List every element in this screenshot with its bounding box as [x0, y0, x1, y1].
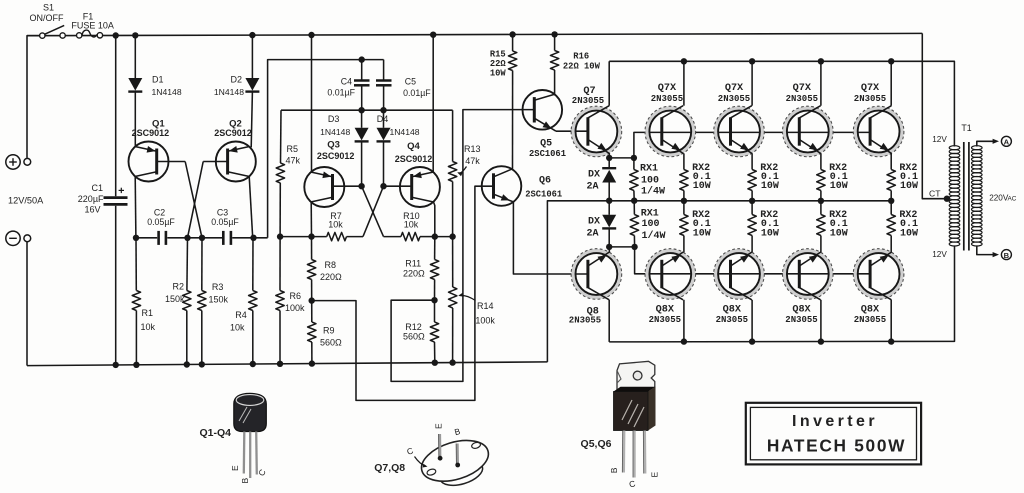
wire D1 to Q1 emitter: [134, 92, 136, 148]
wire Q1 collector down: [134, 176, 137, 238]
battery negative terminal circle: [6, 231, 20, 245]
node R4 ground junction: [250, 361, 256, 367]
svg-text:10W: 10W: [830, 229, 848, 240]
node Q8X #3 collector rail junction: [818, 338, 824, 344]
svg-text:100k: 100k: [475, 316, 495, 326]
wire D2 to Q2 emitter: [251, 92, 252, 148]
node R14 ground junction: [449, 359, 455, 365]
wire Q8X #3 collector: [820, 300, 822, 342]
wire battery positive to switch: [27, 36, 40, 158]
svg-text:Q7,Q8: Q7,Q8: [374, 462, 405, 474]
node Q4 base junction: [380, 183, 386, 189]
node R11/R12 junction: [431, 297, 437, 303]
transistor Q7X #4 2N3055: [856, 108, 902, 154]
svg-text:1N4148: 1N4148: [320, 127, 350, 137]
node C4 top junction: [359, 56, 365, 62]
transistor Q7X #2 2N3055: [716, 108, 762, 154]
svg-text:150k: 150k: [165, 294, 185, 304]
svg-text:C3: C3: [217, 208, 228, 218]
battery positive open terminal: [24, 158, 31, 165]
node Q7 emitter junction: [606, 155, 612, 161]
svg-text:2SC1061: 2SC1061: [525, 189, 562, 199]
svg-text:C2: C2: [154, 208, 165, 218]
svg-text:2SC9012: 2SC9012: [317, 151, 355, 161]
svg-text:220µF: 220µF: [78, 194, 104, 204]
svg-text:R11: R11: [405, 259, 421, 269]
wire slant junction to R10: [384, 236, 401, 238]
svg-text:C5: C5: [405, 77, 416, 87]
wire R7 to slant junction: [347, 236, 364, 238]
node Q3 emitter rail junction: [308, 32, 314, 38]
svg-text:2A: 2A: [586, 229, 598, 240]
svg-text:C1: C1: [91, 183, 103, 193]
wire ground bottom rail: [27, 362, 548, 366]
node R8/R9 junction: [309, 297, 315, 303]
node R3 top junction: [199, 235, 205, 241]
node Q1 collector / C2 left junction: [133, 235, 139, 241]
diode DX2: [602, 215, 616, 228]
transistor Q8X #1 2N3055: [647, 251, 693, 297]
wire C1 to ground rail: [115, 206, 117, 365]
svg-text:10k: 10k: [328, 220, 343, 230]
svg-text:2N3055: 2N3055: [572, 96, 604, 106]
svg-text:Q7X: Q7X: [658, 83, 677, 94]
resistor RX2 lower #3: [820, 201, 822, 215]
svg-text:R16: R16: [573, 51, 589, 61]
wire Q1 collector to R1: [135, 238, 137, 291]
svg-text:D2: D2: [230, 75, 242, 85]
svg-text:R8: R8: [325, 260, 337, 270]
svg-text:10W: 10W: [830, 181, 848, 192]
resistor R10: [401, 232, 420, 240]
wire R11/R12 junction to Q5 base: [391, 110, 534, 382]
resistor RX2 upper #3: [817, 170, 825, 191]
svg-text:Q4: Q4: [407, 141, 420, 152]
svg-text:R2: R2: [172, 282, 184, 292]
wire Q4 collector down: [434, 202, 435, 237]
wire Q7X #2 emitter to RX2: [751, 153, 753, 169]
node DX middle rail junction: [606, 198, 612, 204]
node R15 top rail junction: [509, 31, 515, 37]
wire fuse output to C1: [115, 36, 117, 197]
svg-text:10k: 10k: [230, 322, 245, 332]
svg-text:E: E: [230, 465, 240, 471]
wire oscillator bias rail: [281, 109, 453, 111]
svg-text:FUSE 10A: FUSE 10A: [71, 21, 114, 31]
resistor RX2 lower #2: [751, 201, 753, 215]
node CT junction dot: [944, 196, 950, 202]
transistor Q3 2SC9012: [304, 167, 344, 207]
svg-text:10W: 10W: [761, 229, 779, 240]
svg-text:R15: R15: [490, 50, 506, 60]
node RX2 #3 middle rail junction: [818, 198, 824, 204]
svg-text:2SC9012: 2SC9012: [214, 128, 252, 138]
node Q3 collector / R7 / R8 junction: [308, 233, 314, 239]
svg-text:22Ω: 22Ω: [490, 59, 507, 69]
transistor Q8X #4 2N3055: [856, 251, 902, 297]
node RX1 middle rail junction: [631, 198, 637, 204]
node R13/R14 junction: [449, 233, 455, 239]
svg-text:Q3: Q3: [327, 139, 340, 150]
svg-text:2N3055: 2N3055: [854, 315, 886, 325]
svg-text:B: B: [609, 467, 619, 473]
svg-text:2SC9012: 2SC9012: [395, 154, 433, 164]
node R1 ground junction: [133, 362, 139, 368]
node Q4 collector / R10 / R11 junction: [432, 233, 438, 239]
node R6 ground junction: [277, 361, 283, 367]
transistor Q7X #1 2N3055: [647, 108, 693, 154]
wire Q8 collector to bottom collector rail: [608, 300, 610, 342]
wire rail to D2: [251, 35, 253, 78]
node Q2 collector / C3 right junction: [250, 235, 256, 241]
wire DX2 to Q8 emitter node: [608, 228, 610, 247]
node D1 top rail junction: [132, 32, 138, 38]
node D3 rail junction: [358, 107, 364, 113]
fuse F1: [77, 33, 82, 38]
resistor R12: [434, 300, 436, 322]
resistor R9: [311, 301, 313, 322]
wire Q8 bank collector rail: [609, 245, 954, 342]
resistor RX2 lower #4: [890, 201, 892, 215]
transistor Q8 2N3055: [573, 251, 619, 297]
node R2 ground junction: [184, 361, 190, 367]
resistor R2: [186, 238, 189, 291]
wire cap row C2 left: [136, 237, 157, 239]
svg-text:10W: 10W: [900, 229, 918, 240]
node R9 ground junction: [309, 360, 315, 366]
node Q8X #2 collector rail junction: [749, 338, 755, 344]
svg-text:10W: 10W: [761, 181, 779, 192]
node RX2 #2 middle rail junction: [749, 198, 755, 204]
svg-text:R1: R1: [142, 308, 154, 318]
svg-text:B: B: [1004, 251, 1010, 260]
resistor RX2 upper #4: [887, 170, 895, 191]
wire R15 to Q6 collector: [512, 71, 514, 169]
wire Q2 collector down: [249, 176, 253, 238]
svg-text:Q7X: Q7X: [793, 83, 812, 94]
transformer T1 primary winding: [949, 146, 960, 150]
svg-text:12V: 12V: [932, 135, 947, 144]
svg-text:D4: D4: [377, 114, 389, 124]
svg-text:D1: D1: [152, 75, 164, 85]
wire D3 anode lead: [361, 110, 363, 128]
svg-text:Q1-Q4: Q1-Q4: [199, 427, 231, 439]
svg-text:2A: 2A: [586, 181, 598, 192]
svg-text:0.01µF: 0.01µF: [327, 88, 355, 98]
node R16 top rail junction: [551, 31, 557, 37]
transistor Q1 2SC9012: [129, 142, 169, 182]
transistor Q6 2SC1061: [482, 166, 522, 206]
svg-text:R14: R14: [477, 301, 494, 311]
wire Q7X #4 collector: [890, 61, 892, 105]
svg-text:A: A: [1004, 137, 1010, 146]
node C2 right / R2 junction: [184, 235, 190, 241]
svg-text:560Ω: 560Ω: [320, 338, 342, 348]
svg-text:Q5: Q5: [540, 139, 552, 150]
svg-text:2SC1061: 2SC1061: [529, 149, 566, 159]
resistor RX2 upper #2: [748, 170, 756, 191]
svg-text:10k: 10k: [404, 220, 419, 230]
wire R10 to Q4 collector junction: [420, 236, 435, 238]
terminal A: [1001, 136, 1011, 146]
svg-text:2N3055: 2N3055: [716, 315, 748, 325]
resistor R7: [327, 232, 347, 240]
wire R1 to ground: [135, 311, 137, 365]
wire DX1 to middle rail: [608, 183, 610, 201]
svg-text:R9: R9: [323, 326, 335, 336]
wire Q4 emitter to top rail: [432, 35, 434, 172]
node R12 ground junction: [432, 360, 438, 366]
svg-text:R3: R3: [212, 282, 224, 292]
wire Q3 emitter to top rail: [311, 35, 313, 172]
wire Q8X #2 collector: [751, 300, 753, 342]
package Q1-Q4 leads: [243, 432, 246, 474]
svg-text:RX1: RX1: [640, 163, 658, 174]
diode D3: [355, 128, 369, 141]
node Q8X #1 collector rail junction: [681, 338, 687, 344]
svg-text:E: E: [433, 423, 443, 429]
capacitor C4: [354, 79, 370, 82]
svg-text:0.05µF: 0.05µF: [147, 217, 175, 227]
svg-text:E: E: [649, 472, 659, 478]
node Q8 emitter junction: [606, 244, 612, 250]
node D2 top rail junction: [249, 32, 255, 38]
resistor R3: [201, 238, 203, 291]
node RX1 top junction: [631, 155, 637, 161]
svg-text:220Ω: 220Ω: [320, 272, 342, 282]
wire Q1 base: [157, 161, 186, 163]
wire Q7 emitter to DX1: [608, 158, 610, 168]
svg-text:22Ω 10W: 22Ω 10W: [563, 62, 601, 72]
svg-text:R13: R13: [464, 144, 481, 154]
terminal B: [1001, 250, 1011, 260]
svg-text:560Ω: 560Ω: [403, 332, 425, 342]
wire middle rail to DX2: [608, 201, 610, 215]
capacitor C5: [376, 79, 392, 82]
resistor RX1 upper: [633, 158, 635, 170]
svg-text:2N3055: 2N3055: [651, 94, 683, 104]
wire Q6 emitter to Q8 base: [513, 202, 588, 274]
wire C4 top lead: [361, 60, 363, 81]
wire Q7 collector to collector rail: [608, 61, 610, 105]
diode D2: [245, 78, 259, 91]
node RX2 #1 middle rail junction: [681, 198, 687, 204]
svg-text:1/4W: 1/4W: [641, 186, 665, 198]
wire C3 right to Q2 collector: [232, 237, 267, 239]
wire Q7X #1 emitter to RX2: [683, 153, 685, 169]
wire Q7 emitter to DX node: [608, 153, 610, 158]
svg-text:10W: 10W: [693, 229, 711, 240]
wire Q7X #3 collector: [820, 61, 822, 105]
capacitor C1: [104, 196, 128, 199]
node RX1 lower junction: [631, 244, 637, 250]
resistor RX2 lower #1: [683, 201, 685, 215]
svg-text:100k: 100k: [285, 303, 305, 313]
diode D4: [377, 128, 391, 141]
wire Q4 base: [384, 185, 412, 187]
resistor R14: [452, 237, 454, 287]
svg-text:2N3055: 2N3055: [786, 94, 818, 104]
wire middle RX common rail: [547, 201, 891, 362]
transistor Q8X #3 2N3055: [785, 251, 831, 297]
wire Q7X #3 emitter to RX2: [820, 153, 822, 169]
svg-text:B: B: [240, 478, 250, 484]
resistor RX1 lower: [633, 201, 635, 215]
wire Q7X #2 collector: [751, 61, 753, 105]
transformer T1 secondary winding: [972, 146, 983, 150]
svg-text:AC: AC: [1008, 195, 1017, 202]
svg-text:Q7X: Q7X: [725, 83, 744, 94]
wire secondary to output B: [977, 245, 995, 254]
wire Q2 base: [203, 161, 227, 163]
battery positive terminal circle: [6, 155, 20, 169]
wire D3 cathode to Q3 base: [361, 141, 363, 186]
svg-text:2SC9012: 2SC9012: [132, 128, 170, 138]
transistor Q2 2SC9012: [216, 142, 256, 182]
node Q7X #1 collector rail junction: [681, 58, 687, 64]
wire Q3 base slant to R10: [362, 186, 384, 236]
svg-text:R12: R12: [405, 322, 422, 332]
svg-text:100: 100: [641, 176, 659, 187]
wire secondary to output A: [977, 141, 995, 146]
package drawing Q1-Q4 TO-92 body: [234, 393, 266, 431]
wire battery negative down to ground rail: [26, 242, 28, 366]
wire Q8 emitter to RX1: [609, 246, 634, 248]
svg-text:S1: S1: [43, 3, 54, 13]
wire Q5 emitter to Q7 base: [556, 130, 588, 132]
wire Q3 collector down: [310, 202, 312, 237]
wire C5 bottom lead: [383, 85, 385, 110]
wire Q1 base slant to R3 top: [185, 162, 202, 238]
transistor Q5 2SC1061: [523, 90, 563, 130]
resistor R4: [252, 238, 254, 291]
svg-text:2N3055: 2N3055: [569, 315, 601, 325]
svg-text:1N4148: 1N4148: [389, 127, 419, 137]
node Q4 emitter rail junction: [430, 32, 436, 38]
svg-text:2N3055: 2N3055: [854, 94, 886, 104]
wire R5 junction to R7: [280, 236, 327, 238]
node Q7X #3 collector rail junction: [818, 58, 824, 64]
node Q7X #4 collector rail junction: [888, 58, 894, 64]
wire CT feed from top rail: [922, 33, 947, 198]
resistor R16: [554, 34, 556, 50]
svg-text:R5: R5: [287, 144, 299, 154]
resistor R15: [512, 35, 514, 52]
package drawing Q5,Q6 body: [614, 387, 656, 392]
wire R3 top to C3: [202, 237, 222, 239]
svg-text:HATECH 500W: HATECH 500W: [767, 436, 906, 456]
node Q3 base junction: [358, 183, 364, 189]
wire +12V top rail: [27, 33, 922, 35]
transistor Q4 2SC9012: [400, 167, 440, 207]
svg-text:10k: 10k: [141, 322, 156, 332]
wire Q2 base slant to R2 top: [188, 162, 204, 238]
svg-text:Q6: Q6: [539, 176, 551, 187]
svg-text:1/4W: 1/4W: [642, 230, 666, 242]
wire R8/R9 junction to Q6 base: [312, 186, 494, 400]
svg-text:DX: DX: [588, 170, 600, 181]
wire Q3 base: [333, 185, 362, 187]
node Q7X #2 collector rail junction: [749, 58, 755, 64]
svg-text:CT: CT: [929, 188, 941, 198]
resistor R1: [132, 291, 140, 311]
wire Q8 emitter up to junction: [608, 247, 610, 252]
svg-text:0.05µF: 0.05µF: [211, 217, 239, 227]
transistor Q8X #2 2N3055: [716, 251, 762, 297]
transformer T1 core: [963, 142, 965, 251]
svg-text:10W: 10W: [693, 181, 711, 192]
svg-text:16V: 16V: [84, 205, 100, 215]
resistor RX2 upper #1: [680, 170, 688, 191]
svg-text:ON/OFF: ON/OFF: [30, 13, 64, 23]
wire bias rail corner to R13: [452, 110, 454, 161]
svg-text:Q5,Q6: Q5,Q6: [581, 438, 612, 450]
battery negative open terminal: [24, 235, 31, 242]
wire R16 to Q5 collector: [554, 70, 556, 94]
capacitor C2: [157, 231, 160, 245]
transistor Q7X #3 2N3055: [785, 108, 831, 154]
title box frame: [746, 403, 921, 465]
svg-text:RX1: RX1: [641, 208, 659, 219]
svg-text:1N4148: 1N4148: [152, 87, 182, 97]
node RX2 #4 middle rail junction: [888, 198, 894, 204]
resistor R5: [280, 110, 283, 163]
capacitor C3: [222, 231, 225, 245]
svg-text:47k: 47k: [465, 156, 480, 166]
package drawing Q5,Q6 TO-220 tab: [617, 361, 655, 392]
svg-text:10W: 10W: [490, 69, 507, 79]
node C1 top rail junction: [113, 32, 119, 38]
svg-text:Q7X: Q7X: [861, 83, 880, 94]
svg-text:220Ω: 220Ω: [403, 268, 425, 278]
svg-text:10W: 10W: [900, 181, 918, 192]
wire Q7 bank collector rail: [609, 61, 954, 146]
wire rail to D1: [134, 35, 136, 78]
wire Q4 base slant to R7: [363, 186, 384, 236]
svg-text:R6: R6: [290, 291, 302, 301]
package drawing Q7,Q8 TO-3 can: [417, 433, 496, 493]
package Q7,Q8 pins: [438, 434, 441, 458]
wire C2 right to R3: [167, 237, 202, 239]
resistor R11: [434, 237, 436, 260]
node R5/R6 junction: [277, 233, 283, 239]
diode D1: [128, 78, 142, 91]
svg-text:12V: 12V: [932, 250, 947, 259]
switch S1: [40, 33, 45, 38]
resistor R6: [279, 237, 281, 291]
wire Q7X #1 collector: [683, 61, 685, 105]
node C1 ground junction: [113, 362, 119, 368]
svg-text:C4: C4: [341, 76, 352, 86]
node D4 rail junction: [380, 107, 386, 113]
wire Q7X base rail: [634, 132, 870, 158]
svg-text:150k: 150k: [209, 294, 229, 304]
wire C4 bottom lead: [361, 85, 363, 110]
wire Q7X #4 emitter to RX2: [890, 153, 892, 169]
wire Q8X base rail: [635, 247, 870, 274]
svg-text:DX: DX: [588, 216, 600, 227]
svg-text:T1: T1: [961, 123, 971, 133]
svg-text:2N3055: 2N3055: [718, 94, 750, 104]
wire C5 top lead: [383, 60, 385, 81]
svg-text:1N4148: 1N4148: [214, 87, 244, 97]
resistor R13: [448, 162, 456, 182]
svg-text:220V: 220V: [989, 193, 1009, 202]
svg-text:12V/50A: 12V/50A: [8, 196, 44, 206]
package Q5,Q6 leads: [622, 431, 625, 473]
diode DX1: [602, 167, 616, 169]
wire Q7 emitter to RX1: [609, 157, 634, 159]
